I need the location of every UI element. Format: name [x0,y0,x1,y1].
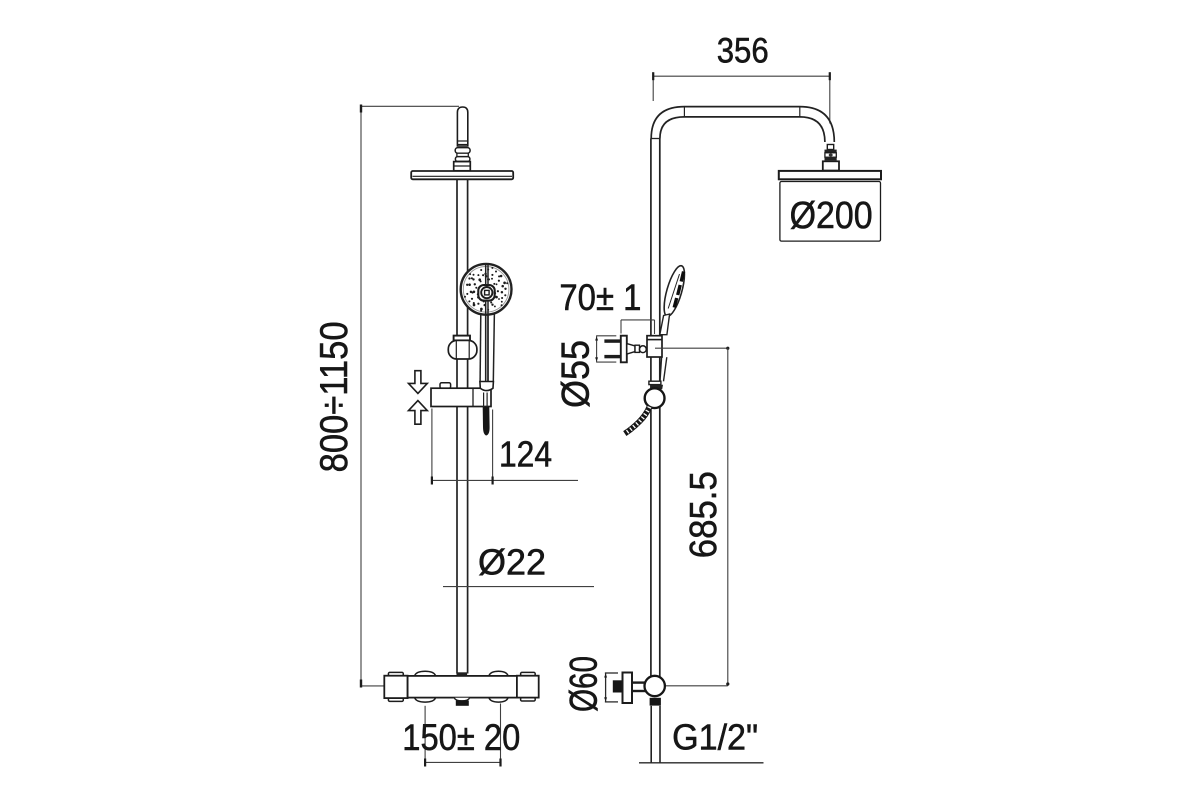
svg-text:685.5: 685.5 [683,471,725,558]
slider bracket body [431,388,491,406]
pin lower bulge [455,157,470,162]
bottom outlet black [650,698,661,706]
mixer body bar [408,676,517,698]
bottom black stub [613,680,623,692]
hose ball [645,388,665,408]
svg-text:Ø22: Ø22 [478,542,546,583]
mixer right knob ridge top [521,672,536,675]
svg-text:70± 1: 70± 1 [559,277,641,318]
pin ring lines [457,141,467,145]
dimension Ø22 leader [443,586,594,588]
rain head disc (left view) [411,171,513,179]
svg-text:Ø55: Ø55 [555,340,598,408]
mixer left knob [384,676,407,698]
head center rings [478,285,494,301]
svg-text:124: 124 [499,434,552,475]
mixer top port right [489,671,508,676]
svg-text:150± 20: 150± 20 [402,717,520,758]
dimension Ø55 bracket [597,335,617,362]
union taper [627,344,635,355]
svg-text:800÷1150: 800÷1150 [313,321,356,472]
collar on pipe [649,381,661,384]
mixer pipe joint band [457,672,468,676]
hand shower stem lines over face [486,265,488,383]
hand shower handle (right view) [660,314,670,335]
pipe column (right view) [651,139,660,677]
ground line [639,762,764,764]
main pipe (left view) [457,180,468,674]
head ball joint [825,150,837,153]
dimension 800÷1150 vertical line [361,106,459,686]
bottom elbow circle [645,676,665,696]
head face dashes [674,272,683,308]
handle tail below holder [660,357,667,381]
head connector neck [827,145,833,150]
bottom wall bracket [605,673,618,703]
bottom drop pipe [651,706,660,763]
holder block on pipe [647,336,662,357]
tick top [360,105,362,113]
black hose segment [483,407,490,436]
handle cap [480,382,494,391]
slider knob body [448,340,477,359]
arrow up [409,401,428,425]
pipe joint line [651,138,660,140]
mixer left knob ridge top [388,672,403,675]
mixer right knob ridge bottom [521,698,536,701]
dimension 356 [653,76,830,123]
top pin bullet [457,107,467,146]
tick bottom [360,680,362,688]
leader to 685.5 line [655,347,728,349]
rain head top plate (right view) [779,171,881,179]
pin neck [457,153,468,157]
slider bracket tab [440,383,451,388]
mixer center outlet [454,698,469,701]
mixer bottom port left [415,698,436,702]
union escutcheon [621,336,627,363]
hose curl [625,407,650,434]
hand shower head (left view) [461,264,512,315]
dimension 685.5 vertical [727,348,729,686]
svg-text:Ø60: Ø60 [563,656,606,712]
tail dark cap [651,385,663,389]
hose lines in bracket [484,393,488,408]
bottom stub cylinder [632,681,646,683]
pin collar [454,162,471,171]
top arm inner bend [660,117,825,142]
svg-text:Ø200: Ø200 [790,195,873,237]
arrow down [409,371,428,394]
union stub [635,345,640,352]
hand shower handle (left view) [480,312,494,382]
arm sleeve end marks [683,107,685,117]
bottom leader [665,685,728,687]
slider knob top band [454,336,470,341]
mixer left knob ridge bottom [388,698,403,701]
dimension 150±20 [425,704,500,766]
mixer bottom port right [489,698,508,702]
dimension 70±1 bracket [621,320,655,334]
rain head body [780,182,881,242]
hand shower head (right view) [660,264,689,318]
union ball [640,346,647,353]
hand shower inner stem lines [486,265,488,383]
bottom escutcheon [623,673,633,704]
spray dots [464,267,508,312]
wall union thick flanges [604,339,620,342]
mixer right knob [517,676,539,698]
pin bulge [455,148,470,154]
svg-text:356: 356 [717,32,769,71]
mixer top port left [415,671,436,676]
svg-text:G1/2": G1/2" [672,717,758,758]
head nut [823,161,839,170]
top arm outer bend left [651,107,834,142]
dimension 124 [432,409,578,484]
